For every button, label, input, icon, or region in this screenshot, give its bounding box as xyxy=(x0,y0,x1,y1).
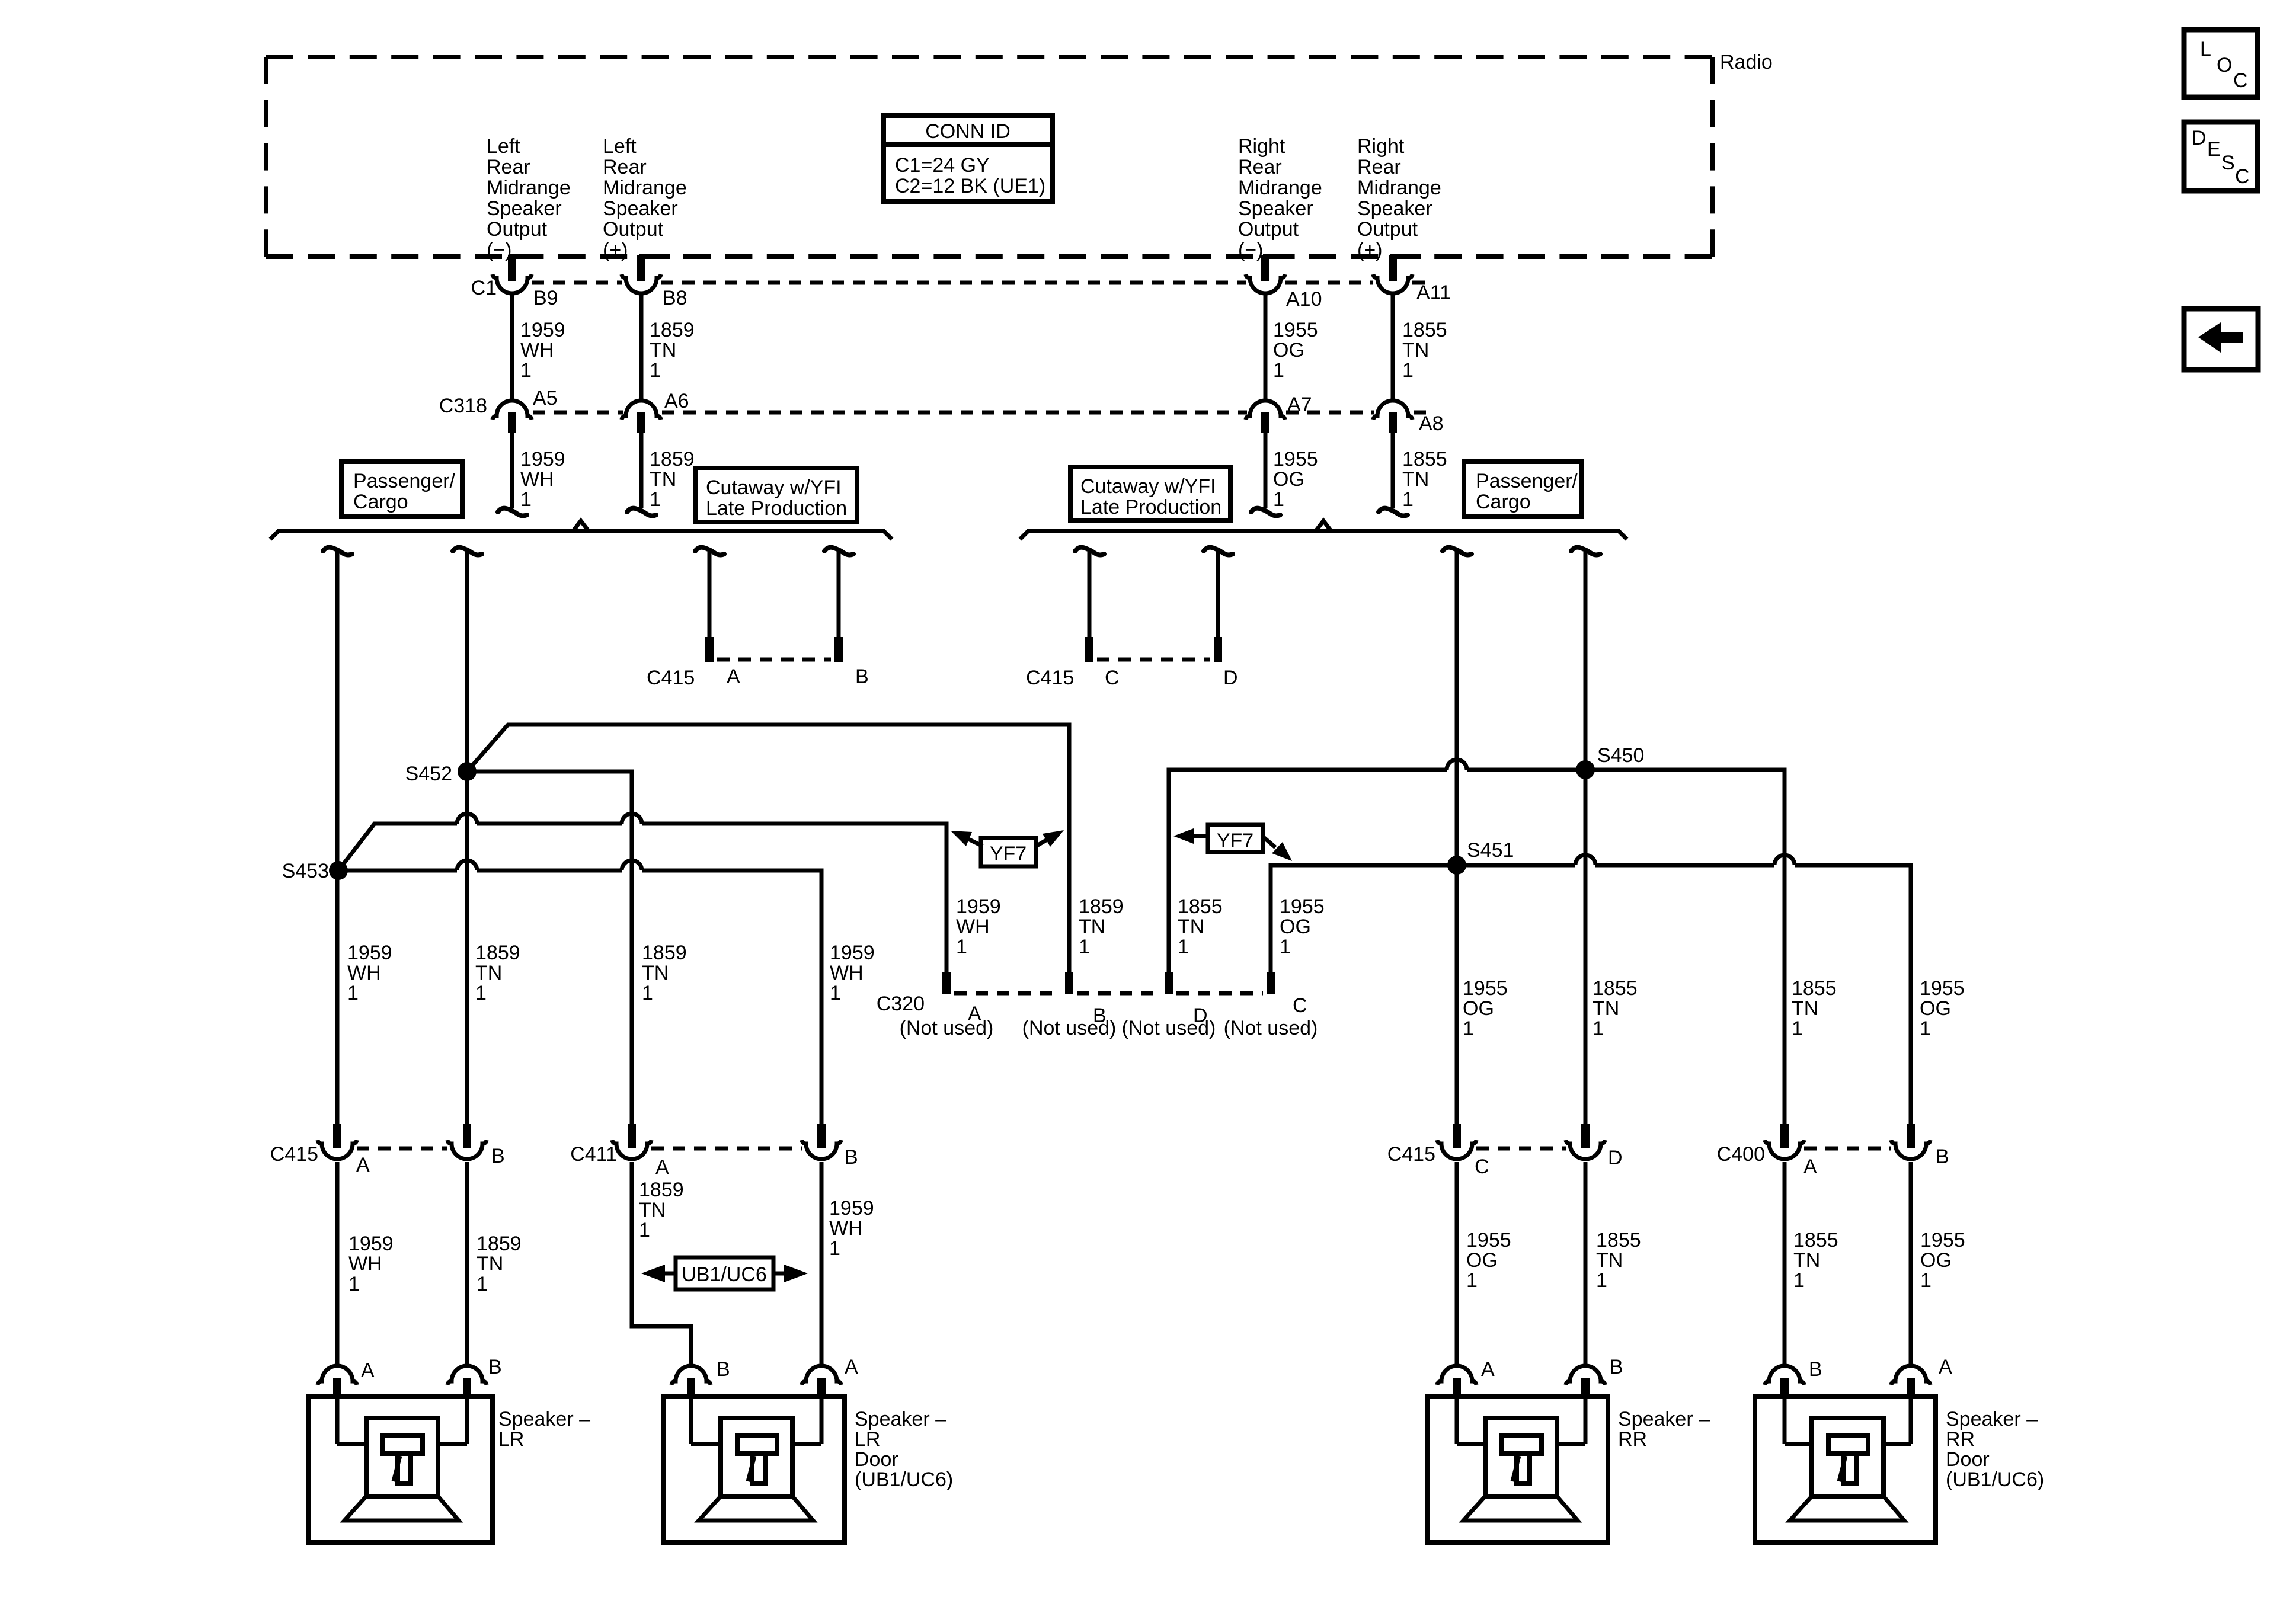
wire stub to C415-A (mid) xyxy=(708,552,712,638)
wire 1955 OG (C415-C to speaker RR A) xyxy=(1455,1162,1459,1364)
speaker pin connector LR B xyxy=(447,1366,487,1385)
svg-text:B: B xyxy=(1936,1145,1949,1168)
speaker pin connector RR Door A xyxy=(1891,1366,1930,1385)
svg-text:O: O xyxy=(2217,54,2232,76)
splice S452 xyxy=(458,762,477,781)
svg-text:Cutaway w/YFILate Production: Cutaway w/YFILate Production xyxy=(706,476,847,520)
connector C400 pin A xyxy=(1780,1124,1789,1148)
connector C320 pin A xyxy=(942,972,951,994)
UB1/UC6 arrow right to 1959 WH wire xyxy=(773,1272,790,1276)
splice S450 xyxy=(1576,760,1595,779)
svg-text:A11: A11 xyxy=(1416,281,1451,304)
connector C318 pin A7 (female dome + male pin) xyxy=(1246,401,1285,420)
svg-text:A5: A5 xyxy=(533,387,558,409)
wire 1955 OG segment below A7 xyxy=(1264,433,1268,508)
wire 1859 TN segment below A6 xyxy=(639,433,644,508)
radio component box (dashed) xyxy=(266,55,1712,59)
wire from S453 to C320-A (diagonal+horizontal with hops+drop) xyxy=(338,824,457,870)
wire 1955 OG segment A10-A7 xyxy=(1264,295,1268,399)
svg-text:Cutaway w/YFILate Production: Cutaway w/YFILate Production xyxy=(1080,475,1221,518)
connector C415 (mid-right) pin D xyxy=(1214,637,1222,662)
wire 1855 TN segment below A8 xyxy=(1391,433,1395,508)
wire stub to C415-C (mid) xyxy=(1088,552,1092,638)
connector C415 (bottom-right) pin C xyxy=(1453,1124,1461,1148)
connector C1 pin B8 (male pin + female cup) xyxy=(639,254,670,259)
wire start curl 1959 WH xyxy=(323,548,352,555)
harness brace (right) xyxy=(1020,531,1627,539)
wire 1959 WH segment below A5 xyxy=(510,433,514,508)
option callout box UB1/UC6 xyxy=(676,1257,773,1289)
wire 1959 WH (C411-B to speaker LR Door A) xyxy=(820,1162,824,1364)
wire stub to C415-B (mid) xyxy=(837,552,841,638)
svg-text:A: A xyxy=(356,1154,370,1176)
svg-text:B: B xyxy=(488,1356,502,1378)
svg-text:A8: A8 xyxy=(1419,412,1444,435)
wire 1855 TN (C415-D to speaker RR B) xyxy=(1584,1162,1588,1364)
svg-text:B: B xyxy=(855,665,869,688)
connector C1 pin A10 (male pin + female cup) xyxy=(1263,254,1294,259)
svg-text:S452: S452 xyxy=(405,763,452,785)
svg-text:C: C xyxy=(1105,667,1120,689)
wire 1959 WH segment B9-A5 xyxy=(510,295,514,399)
LOC icon box xyxy=(2184,30,2257,97)
connector C415 (bottom-left) pin A xyxy=(333,1124,341,1148)
connector C320 dashed mating line xyxy=(954,991,1061,996)
connector C318 dashed mating line xyxy=(533,411,623,415)
splice S453 xyxy=(329,861,348,880)
svg-text:C411: C411 xyxy=(570,1143,617,1166)
svg-text:C: C xyxy=(1293,994,1307,1017)
svg-text:A: A xyxy=(1803,1156,1817,1178)
svg-text:C415: C415 xyxy=(270,1143,318,1166)
UB1/UC6 arrow left to 1859 TN wire xyxy=(659,1272,676,1276)
connector C320 pin D xyxy=(1165,972,1173,994)
YF7 right arrow to 1859 TN wire xyxy=(1036,838,1049,846)
speaker - RR (box + symbol) xyxy=(1427,1397,1608,1542)
speaker pin connector LR Door A xyxy=(802,1366,841,1385)
svg-text:D: D xyxy=(2192,127,2207,149)
connector C415 (bottom-right) dashed mating line xyxy=(1476,1147,1566,1151)
option box: Cutaway w/YFI Late Production (right) xyxy=(1070,467,1230,521)
svg-text:C415: C415 xyxy=(1387,1143,1435,1166)
connector C1 dashed mating line xyxy=(532,281,622,285)
connector C415 (mid-left) pin B xyxy=(834,637,843,662)
connector C415 (bottom-left) dashed mating line xyxy=(357,1147,447,1151)
wire 1859 TN (C411-A to speaker LR Door B, with jog) xyxy=(632,1162,691,1364)
svg-text:C2=12 BK (UE1): C2=12 BK (UE1) xyxy=(895,175,1045,197)
wire start curl C415-C stub xyxy=(1075,548,1104,555)
wire S451 to C400-B (horizontal with hops+drop) xyxy=(1457,863,1575,868)
speaker pin connector RR Door B xyxy=(1765,1366,1804,1385)
speaker - RR Door (box + symbol) xyxy=(1755,1397,1936,1542)
wire start curl C415-D stub xyxy=(1204,548,1233,555)
connector C318 pin A8 (female dome + male pin) xyxy=(1373,401,1412,420)
harness brace (left) xyxy=(270,531,892,539)
connector C1 pin A11 (male pin + female cup) xyxy=(1390,254,1421,259)
wire 1955 OG vertical (brace to C415-C) xyxy=(1455,552,1459,1125)
svg-text:S451: S451 xyxy=(1467,839,1514,862)
svg-text:B8: B8 xyxy=(663,287,687,309)
connector C411 pin A xyxy=(628,1124,636,1148)
option box: Passenger/Cargo (right) xyxy=(1464,462,1582,517)
svg-text:Radio: Radio xyxy=(1720,51,1773,73)
svg-text:A: A xyxy=(1939,1356,1952,1378)
connector C415 (mid-right) dashed mating line xyxy=(1097,658,1210,662)
svg-text:B: B xyxy=(491,1145,505,1167)
svg-text:A: A xyxy=(655,1156,669,1179)
wire start curl 1855 TN xyxy=(1571,548,1600,555)
svg-text:A: A xyxy=(845,1356,858,1378)
wire from S452 to C411-A (horizontal+drop) xyxy=(467,772,632,1125)
svg-text:A6: A6 xyxy=(664,390,689,412)
connector C411 pin B xyxy=(817,1124,826,1148)
svg-text:A7: A7 xyxy=(1287,393,1312,416)
svg-text:C: C xyxy=(1475,1156,1489,1178)
option callout box YF7 (left) xyxy=(981,838,1036,866)
wire stub to C415-D (mid) xyxy=(1216,552,1220,638)
svg-text:YF7: YF7 xyxy=(1217,830,1253,852)
wire start curl C415-A stub xyxy=(695,548,724,555)
svg-text:B: B xyxy=(845,1146,858,1169)
svg-text:A: A xyxy=(1481,1358,1495,1381)
connector C318 pin A5 (female dome + male pin) xyxy=(493,401,532,420)
speaker pin connector RR A xyxy=(1437,1366,1476,1385)
speaker pin connector LR A xyxy=(318,1366,357,1385)
wire 1959 WH (C415-A to speaker LR A) xyxy=(335,1162,340,1364)
connector C400 pin B xyxy=(1907,1124,1915,1148)
wire 1855 TN vertical (brace to C415-D) xyxy=(1584,552,1588,1125)
wire S450 to C320-D (horizontal with hop+drop) xyxy=(1467,768,1585,772)
connector C400 dashed mating line xyxy=(1804,1147,1891,1151)
option box: Passenger/Cargo (left) xyxy=(341,462,462,517)
YF7 arrow to 1855 TN wire (left) xyxy=(1190,834,1208,838)
connector C415 (bottom-right) pin D xyxy=(1581,1124,1590,1148)
connector C415 (mid-left) dashed mating line xyxy=(717,658,831,662)
svg-text:C1=24 GY: C1=24 GY xyxy=(895,154,990,177)
svg-text:S453: S453 xyxy=(282,860,329,882)
svg-text:B: B xyxy=(1809,1358,1822,1381)
svg-text:C415: C415 xyxy=(647,667,695,689)
wire 1859 TN vertical (brace to C415-B) xyxy=(465,552,469,1125)
svg-text:S: S xyxy=(2221,152,2235,174)
svg-text:A: A xyxy=(727,665,740,688)
svg-text:(Not used): (Not used) xyxy=(900,1017,994,1039)
svg-text:UB1/UC6: UB1/UC6 xyxy=(682,1263,767,1286)
speaker - LR Door (box + symbol) xyxy=(664,1397,845,1542)
speaker - LR (box + symbol) xyxy=(308,1397,493,1542)
wire S450 to C400-A (horizontal+drop) xyxy=(1585,770,1785,1125)
wire start curl 1859 TN xyxy=(453,548,482,555)
YF7 left arrow to 1959 WH wire xyxy=(966,838,983,846)
svg-text:A: A xyxy=(361,1359,375,1382)
wire 1859 TN (C415-B to speaker LR B) xyxy=(465,1162,469,1364)
svg-text:(Not used): (Not used) xyxy=(1224,1017,1318,1039)
svg-text:A10: A10 xyxy=(1286,288,1322,311)
svg-text:CONN ID: CONN ID xyxy=(925,120,1011,143)
wire start curl C415-B stub xyxy=(824,548,853,555)
svg-text:S450: S450 xyxy=(1597,744,1644,767)
svg-text:E: E xyxy=(2207,138,2221,161)
wire from S452 to C320-B (diagonal+horizontal+drop) xyxy=(467,725,1069,975)
connector C1 pin B9 (male pin + female cup) xyxy=(510,254,541,259)
svg-text:B: B xyxy=(717,1358,730,1381)
svg-text:C320: C320 xyxy=(877,993,925,1015)
wire 1855 TN segment A11-A8 xyxy=(1391,295,1395,399)
connector C320 pin B xyxy=(1065,972,1073,994)
option callout box YF7 (right) xyxy=(1208,825,1263,852)
back-arrow icon xyxy=(2198,322,2243,353)
YF7 arrow to 1955 OG wire (right) xyxy=(1263,837,1275,847)
wire 1855 TN (C400-A to speaker RR Door B) xyxy=(1783,1162,1787,1364)
option box: Cutaway w/YFI Late Production (left) xyxy=(696,468,857,522)
svg-text:C1: C1 xyxy=(471,277,497,299)
svg-text:C: C xyxy=(2235,165,2250,188)
DESC icon box xyxy=(2184,122,2257,191)
wire from S453 to C411-B (horizontal with hops+drop) xyxy=(338,869,457,873)
CONN ID table box xyxy=(884,116,1053,201)
svg-text:C400: C400 xyxy=(1717,1143,1765,1166)
connector C318 pin A6 (female dome + male pin) xyxy=(622,401,661,420)
svg-text:D: D xyxy=(1608,1147,1623,1169)
connector C415 (mid-left) pin A xyxy=(705,637,714,662)
connector C411 dashed mating line xyxy=(651,1147,802,1151)
speaker pin connector RR B xyxy=(1566,1366,1605,1385)
connector C415 (mid-right) pin C xyxy=(1085,637,1093,662)
connector C320 pin C xyxy=(1267,972,1275,994)
svg-text:B: B xyxy=(1610,1356,1623,1378)
svg-text:C415: C415 xyxy=(1026,667,1074,689)
svg-text:(Not used): (Not used) xyxy=(1022,1017,1117,1039)
svg-text:YF7: YF7 xyxy=(990,843,1027,865)
svg-text:C: C xyxy=(2233,69,2248,92)
splice S451 xyxy=(1447,856,1466,875)
wire 1959 WH vertical (brace to C415-A) xyxy=(335,552,340,1125)
wire S451 to C320-C (horizontal+drop) xyxy=(1271,865,1457,975)
wire start curl 1955 OG xyxy=(1443,548,1472,555)
wire 1955 OG (C400-B to speaker RR Door A) xyxy=(1909,1162,1913,1364)
wire 1859 TN segment B8-A6 xyxy=(639,295,644,399)
svg-text:C318: C318 xyxy=(439,395,487,417)
speaker pin connector LR Door B xyxy=(671,1366,711,1385)
svg-text:(Not used): (Not used) xyxy=(1122,1017,1216,1039)
connector C415 (bottom-left) pin B xyxy=(463,1124,471,1148)
svg-text:B9: B9 xyxy=(533,287,558,309)
svg-text:D: D xyxy=(1223,667,1238,689)
back-arrow icon box xyxy=(2184,309,2258,370)
svg-text:L: L xyxy=(2200,38,2211,60)
